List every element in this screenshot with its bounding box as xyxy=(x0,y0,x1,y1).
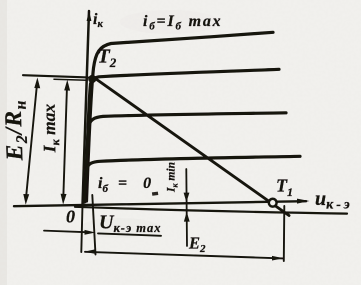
svg-text:0: 0 xyxy=(66,207,75,227)
svg-text:Iк min: Iк min xyxy=(166,162,180,193)
